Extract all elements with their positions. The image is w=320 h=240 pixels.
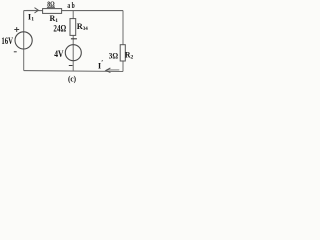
- resistor R2 box on right wire: [120, 45, 125, 61]
- svg-text:(c): (c): [68, 74, 76, 84]
- plus sign of 4V source (crossbar over wire): [71, 38, 77, 40]
- wire bottom: [24, 70, 123, 73]
- wire middle branch (node b down to bottom wire): [72, 11, 74, 71]
- source 16V circle: [15, 32, 32, 49]
- plus sign of 16V source: [14, 27, 19, 32]
- svg-text:3Ω: 3Ω: [109, 50, 118, 60]
- svg-text:4V: 4V: [54, 49, 64, 59]
- svg-text:a b: a b: [67, 1, 75, 10]
- current arrow I1 on top wire: [27, 9, 38, 11]
- svg-text:24Ω: 24Ω: [53, 24, 66, 34]
- minus sign of 16V: [14, 51, 17, 53]
- underline of 8 ohm: [47, 6, 55, 8]
- minus sign of 4V: [69, 65, 73, 67]
- wire right: [122, 11, 124, 72]
- background: [0, 0, 139, 86]
- resistor R1 box: [43, 9, 62, 14]
- svg-text:16V: 16V: [1, 36, 13, 46]
- wire left: [23, 11, 25, 71]
- source 4V circle: [65, 45, 81, 61]
- resistor R34 box on middle branch: [70, 19, 76, 36]
- current arrow I' on bottom wire pointing left: [107, 69, 120, 71]
- wire top: [24, 10, 123, 12]
